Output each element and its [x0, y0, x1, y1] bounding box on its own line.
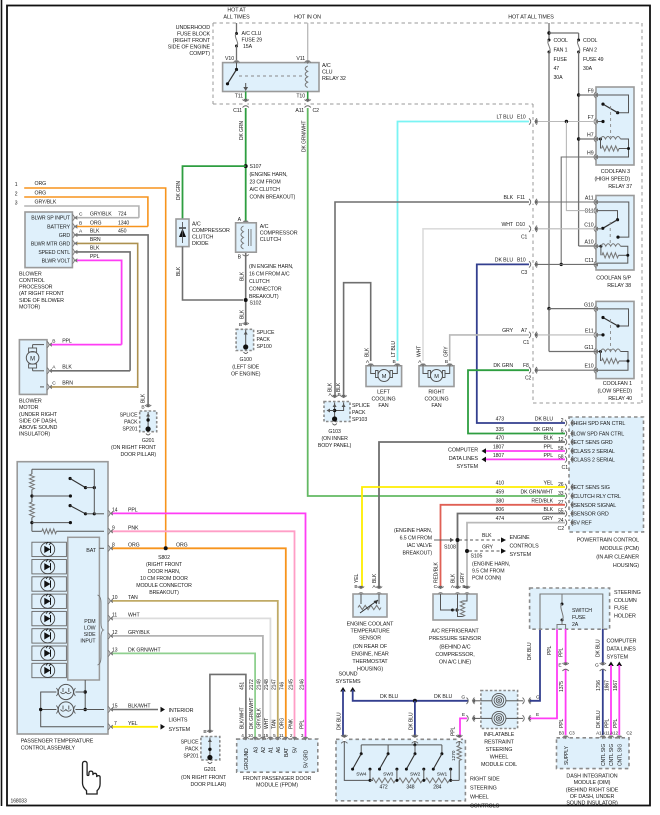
svg-text:BLWR MTR GRD: BLWR MTR GRD — [31, 241, 71, 247]
ECT thermistor — [358, 594, 381, 613]
pin B10 border — [517, 257, 538, 276]
label RIGHT SIDE STEERING WHEEL CONTROLS — [470, 777, 500, 810]
label COMPUTER DATA LINES SYSTEM right — [607, 639, 637, 661]
fuse COOL FAN 1 FUSE 47 30A — [548, 38, 569, 81]
DIM pin A12 — [616, 736, 623, 766]
svg-text:CONTROL: CONTROL — [19, 278, 45, 284]
svg-text:ENGINE, NEAR: ENGINE, NEAR — [351, 652, 389, 658]
svg-text:DK BLU: DK BLU — [337, 712, 343, 730]
relay38 contact — [598, 202, 629, 239]
wire D10 to C10 — [537, 228, 596, 230]
svg-text:DK BLU: DK BLU — [380, 694, 399, 700]
svg-text:BAT: BAT — [284, 748, 290, 757]
svg-text:(ON RIGHT FRONT: (ON RIGHT FRONT — [181, 775, 227, 781]
svg-text:DOOR PILLAR): DOOR PILLAR) — [190, 782, 226, 788]
label POWERTRAIN CONTROL MODULE — [577, 538, 640, 570]
pressure sensor pin B — [460, 572, 470, 595]
svg-text:INFLATABLE: INFLATABLE — [484, 732, 515, 738]
svg-text:S802: S802 — [158, 555, 170, 561]
relay38 coil and resistor — [598, 244, 629, 263]
LED indicator 2 — [32, 559, 67, 574]
svg-text:ENGINE: ENGINE — [510, 535, 531, 541]
svg-text:GRD: GRD — [59, 233, 71, 239]
stub wire 3 GRY/BLK — [15, 200, 139, 218]
wire hot-at-all-times to fuse 29 — [236, 23, 238, 33]
svg-text:B10: B10 — [517, 257, 526, 263]
relay32 armature arrow to T11 — [243, 83, 248, 91]
wire DK BLU B10 to PCM 2 — [477, 257, 565, 423]
pressure sensor potentiometer — [441, 594, 468, 617]
svg-text:H7: H7 — [587, 133, 594, 139]
svg-text:(ENGINE HARN,: (ENGINE HARN, — [394, 528, 432, 534]
svg-text:HOT IN ON: HOT IN ON — [294, 15, 321, 21]
svg-text:PPL: PPL — [559, 719, 565, 728]
svg-text:M: M — [434, 374, 439, 380]
relay37 pin F7 — [588, 115, 598, 125]
svg-text:A1: A1 — [596, 731, 602, 736]
coil spiral E — [481, 711, 518, 725]
relay37 pin F9 — [588, 89, 598, 99]
PCM pin 58 CLASS 2 SERIAL — [493, 453, 615, 463]
A/C REFRIGERANT PRESSURE SENSOR box — [433, 594, 477, 620]
svg-text:E10: E10 — [585, 364, 594, 370]
right fan pin A — [417, 346, 427, 367]
svg-text:DK GRN/WHT: DK GRN/WHT — [302, 121, 308, 152]
svg-text:BLK: BLK — [336, 382, 342, 392]
svg-text:CNTL SIG: CNTL SIG — [609, 744, 615, 766]
svg-text:459: 459 — [496, 490, 505, 496]
svg-text:BLOWER: BLOWER — [19, 399, 42, 405]
wire BLK clutch B to SP100 — [239, 253, 245, 325]
splice S105 — [465, 549, 482, 560]
svg-text:9.5 CM FROM: 9.5 CM FROM — [472, 569, 504, 575]
svg-text:F8: F8 — [523, 363, 529, 369]
svg-text:450: 450 — [118, 229, 127, 235]
svg-text:SYSTEM: SYSTEM — [510, 552, 532, 558]
relay40 pin E11 — [585, 328, 598, 338]
wire DK GRN F8 to PCM 6 — [468, 363, 565, 433]
BLOWER CONTROL PROCESSOR box — [25, 212, 72, 268]
svg-text:B11: B11 — [585, 209, 594, 215]
svg-text:1807: 1807 — [493, 453, 504, 459]
svg-text:ORG: ORG — [176, 542, 188, 548]
svg-text:WHEEL: WHEEL — [490, 755, 509, 761]
svg-text:S102: S102 — [250, 301, 262, 307]
svg-text:FRONT PASSENGER DOOR: FRONT PASSENGER DOOR — [243, 776, 312, 782]
svg-text:16 CM FROM A/C: 16 CM FROM A/C — [249, 272, 290, 278]
svg-text:470: 470 — [496, 436, 505, 442]
splice S107 — [244, 164, 296, 201]
label ENGINE CONTROLS SYSTEM — [510, 535, 540, 558]
relay40 pin G10 — [584, 302, 598, 312]
PCM pin 6 LOW SPD FAN CTRL — [496, 427, 625, 437]
svg-text:BODY PANEL): BODY PANEL) — [318, 443, 352, 449]
svg-text:DATA LINES: DATA LINES — [607, 647, 637, 653]
wire BLK diode to S102 — [176, 247, 243, 300]
PCM pin 27 SENSOR SIGNAL — [496, 498, 617, 508]
svg-text:B: B — [79, 220, 82, 226]
LED indicator 4 — [32, 594, 67, 609]
svg-text:V10: V10 — [225, 56, 234, 62]
relay38 pin B11 — [585, 207, 598, 214]
PCM pin 2 HIGH SPD FAN CTRL — [496, 417, 626, 427]
svg-text:M: M — [30, 356, 35, 362]
svg-text:BAT: BAT — [86, 548, 97, 554]
ECT sensor pin B — [354, 574, 364, 595]
svg-text:DK GRN: DK GRN — [493, 363, 513, 369]
relay32 dashed link — [239, 75, 303, 77]
svg-text:746: 746 — [280, 682, 286, 690]
relay COOLFAN S/P RELAY 38 box — [596, 196, 634, 271]
svg-text:DOOR HARN,: DOOR HARN, — [148, 569, 180, 575]
svg-text:M: M — [382, 374, 387, 380]
svg-text:2145: 2145 — [288, 679, 294, 690]
label ENGINE COOLANT TEMPERATURE SENSOR — [347, 622, 395, 673]
svg-text:HOUSING): HOUSING) — [613, 563, 639, 569]
label RIGHT COOLING FAN — [424, 390, 448, 410]
svg-text:SP103: SP103 — [352, 417, 367, 423]
svg-text:PACK: PACK — [257, 337, 271, 343]
pin F11 border — [517, 195, 538, 205]
SPLICE PACK SP201-1 box — [140, 411, 157, 432]
svg-text:SIDE OF BLOWER: SIDE OF BLOWER — [19, 298, 64, 304]
wire PPL 1807 class2 serial B — [482, 457, 566, 463]
wire DK GRN T11 to S107 to clutch A — [239, 108, 246, 222]
label A/C REFRIGERANT PRESSURE SENSOR — [429, 629, 481, 666]
label DASH INTEGRATION MODULE — [566, 774, 619, 807]
svg-text:MODULE (DIM): MODULE (DIM) — [574, 780, 611, 786]
label INFLATABLE RESTRAINT STEERING WHEEL MODULE COIL — [481, 732, 517, 768]
svg-text:C10: C10 — [584, 222, 593, 228]
svg-text:CONN BREAKOUT): CONN BREAKOUT) — [250, 195, 296, 201]
svg-text:PACK: PACK — [185, 747, 199, 753]
wire hot feed coolfan fuses — [547, 23, 578, 40]
DIM pin A11 — [608, 736, 615, 766]
svg-text:CLUTCH RLY CTRL: CLUTCH RLY CTRL — [574, 494, 621, 500]
relay37 pin H7 — [587, 133, 598, 143]
svg-text:A11: A11 — [295, 108, 304, 114]
LED indicator 5 — [32, 611, 67, 626]
svg-text:2149: 2149 — [257, 679, 263, 690]
lamp wiring — [39, 680, 104, 727]
svg-text:A1: A1 — [269, 747, 275, 753]
label COOLFAN S/P RELAY 38 — [596, 276, 631, 290]
label INTERIOR LIGHTS SYSTEM — [169, 708, 194, 733]
svg-text:G201: G201 — [142, 438, 155, 444]
PCM pin 55 SENSOR GRD — [496, 507, 609, 517]
svg-text:CONTROLS: CONTROLS — [470, 804, 500, 810]
svg-text:47: 47 — [554, 66, 560, 72]
svg-text:IAC VALVE: IAC VALVE — [407, 543, 433, 549]
svg-text:BLK: BLK — [543, 507, 553, 513]
label A/C COMPRESSOR CLUTCH — [260, 224, 298, 243]
pressure sensor pin A — [450, 573, 460, 594]
relay37 pin H9 — [587, 151, 598, 161]
svg-text:COMPRESSOR: COMPRESSOR — [192, 228, 230, 234]
svg-text:HOT AT ALL TIMES: HOT AT ALL TIMES — [508, 15, 554, 21]
wire PPL 1807 class2 serial A — [482, 448, 566, 454]
svg-text:CONNECTOR: CONNECTOR — [249, 287, 282, 293]
svg-text:HOLDER: HOLDER — [614, 613, 636, 619]
BLOWER MOTOR box — [19, 340, 47, 395]
RIGHT SIDE STEERING WHEEL CONTROLS box — [336, 739, 465, 801]
LED indicator 7 — [32, 646, 67, 661]
svg-text:A11: A11 — [602, 731, 610, 736]
svg-text:FUSE 29: FUSE 29 — [242, 38, 263, 44]
STEERING COLUMN FUSE HOLDER box — [530, 588, 610, 629]
svg-text:A/C REFRIGERANT: A/C REFRIGERANT — [431, 629, 479, 635]
svg-text:TEMPERATURE: TEMPERATURE — [350, 629, 390, 635]
svg-text:23 CM FROM: 23 CM FROM — [250, 180, 281, 186]
svg-text:30A: 30A — [554, 75, 564, 81]
svg-text:BLK: BLK — [372, 573, 378, 583]
PDM inner box — [68, 537, 100, 680]
svg-text:A/C: A/C — [322, 63, 331, 69]
svg-text:PNK: PNK — [288, 718, 294, 729]
wire PPL 1867 to DIM A12 — [610, 662, 622, 736]
switch SW3 — [378, 745, 398, 782]
svg-text:6: 6 — [561, 429, 564, 435]
svg-text:A2: A2 — [261, 747, 267, 753]
svg-text:DK BLU: DK BLU — [535, 417, 554, 423]
svg-text:GRY: GRY — [443, 346, 449, 357]
FPDM pin 9 A2 — [257, 679, 267, 753]
svg-text:MOTOR: MOTOR — [19, 405, 39, 411]
svg-text:HOUSING): HOUSING) — [357, 667, 383, 673]
svg-text:C2: C2 — [525, 376, 532, 382]
ground G201-1 — [111, 434, 157, 459]
ECT sensor pin A — [372, 573, 382, 594]
svg-text:YEL: YEL — [354, 574, 360, 583]
svg-text:RIGHT: RIGHT — [428, 390, 445, 396]
svg-text:SYSTEM: SYSTEM — [169, 727, 191, 733]
svg-text:B: B — [462, 584, 465, 590]
DIM C2 label — [626, 731, 632, 736]
svg-text:(IN AIR CLEANER: (IN AIR CLEANER — [596, 555, 639, 561]
svg-text:C: C — [52, 381, 56, 387]
svg-text:11: 11 — [279, 733, 284, 738]
wire A7 to E11 — [537, 334, 596, 336]
relay32 switch — [226, 63, 238, 86]
DIM pin A1 — [600, 736, 607, 766]
labels inside blower processor — [31, 216, 71, 265]
svg-text:SIDE OF DASH,: SIDE OF DASH, — [19, 418, 58, 424]
svg-text:LOW SPD FAN CTRL: LOW SPD FAN CTRL — [574, 432, 625, 438]
LED indicator 6 — [32, 629, 67, 644]
svg-text:DIODE: DIODE — [192, 241, 209, 247]
splice S108 — [444, 538, 460, 551]
svg-text:DATA LINES: DATA LINES — [449, 456, 479, 462]
svg-text:ORG: ORG — [35, 181, 47, 187]
right fan pin B — [443, 346, 453, 368]
svg-text:BLK: BLK — [176, 266, 182, 276]
PCM C1 label — [562, 465, 569, 471]
svg-text:10: 10 — [248, 733, 253, 738]
svg-text:MODULE COIL: MODULE COIL — [481, 762, 517, 768]
svg-text:COMPRESSOR: COMPRESSOR — [260, 231, 298, 237]
svg-text:THERMOSTAT: THERMOSTAT — [352, 659, 388, 665]
svg-text:H9: H9 — [587, 151, 594, 157]
svg-text:PPL: PPL — [559, 648, 565, 657]
svg-text:F11: F11 — [517, 195, 525, 201]
label SOUND SYSTEMS — [336, 672, 362, 686]
svg-text:PPL: PPL — [90, 254, 100, 260]
temp control pin 12 GRY/BLK — [108, 630, 263, 737]
svg-text:(LOW SPEED): (LOW SPEED) — [598, 389, 633, 395]
svg-text:DK BLU: DK BLU — [527, 642, 533, 660]
svg-text:DK GRN: DK GRN — [239, 121, 245, 140]
page left edge line — [1, 0, 3, 806]
FRONT PASSENGER DOOR MODULE box — [237, 739, 318, 772]
PCM pin 12 ECT SENS GRD — [496, 436, 613, 446]
wire hot-in-on to relay V11 — [307, 23, 309, 60]
svg-text:LOW: LOW — [84, 626, 96, 632]
label HOT AT ALL TIMES left — [223, 8, 250, 21]
controls left rail — [344, 741, 370, 780]
pin V11 — [296, 56, 310, 64]
svg-text:COOLING: COOLING — [371, 396, 395, 402]
svg-text:6.5 CM FROM: 6.5 CM FROM — [400, 536, 432, 542]
PCM pin 58 CLASS 2 SERIAL — [493, 445, 615, 455]
wire DK BLU 1796 to DIM A1 — [595, 629, 606, 736]
svg-text:SWITCH: SWITCH — [572, 608, 592, 614]
wire BLK 470 PCM12 to ECT A — [379, 442, 565, 588]
svg-text:GRY: GRY — [502, 328, 514, 334]
svg-text:451: 451 — [240, 682, 246, 690]
wire DK BLU sound sys left — [337, 687, 346, 736]
blower motor symbol — [26, 345, 44, 387]
svg-text:15A: 15A — [243, 44, 253, 50]
svg-text:CONTROL ASSEMBLY: CONTROL ASSEMBLY — [21, 746, 76, 752]
svg-text:2148: 2148 — [264, 679, 270, 690]
right fan motor symbol — [423, 366, 450, 382]
svg-text:5V: 5V — [293, 746, 299, 753]
svg-text:(IN ENGINE HARN,: (IN ENGINE HARN, — [249, 264, 293, 270]
wire LT BLU E10 to left fan B — [398, 115, 530, 362]
svg-text:D10: D10 — [516, 222, 525, 228]
svg-text:GROUND: GROUND — [244, 748, 250, 770]
temp control pin 9 PNK — [108, 525, 295, 737]
wire DK GRN/WHT T10 to PCM 33 — [302, 108, 566, 496]
FPDM pin 4 GROUND — [241, 733, 250, 770]
svg-text:COOLFAN S/P: COOLFAN S/P — [596, 276, 631, 282]
label BLOWER CONTROL PROCESSOR — [19, 271, 65, 310]
svg-text:BLK: BLK — [90, 229, 100, 235]
coil pin E left — [450, 712, 481, 739]
svg-text:HIGH SPD FAN CTRL: HIGH SPD FAN CTRL — [574, 421, 626, 427]
svg-text:3: 3 — [15, 201, 18, 207]
svg-text:BLK: BLK — [141, 393, 147, 403]
svg-text:S105: S105 — [471, 554, 483, 560]
left fan pin A — [364, 347, 374, 367]
svg-text:DK BLU: DK BLU — [596, 639, 602, 657]
relay38 dashed link — [609, 222, 611, 245]
SP201-2 connector — [203, 729, 213, 739]
SP201-1 connector B — [141, 393, 152, 413]
relay40 pin E10 — [585, 364, 598, 374]
svg-text:C1: C1 — [523, 340, 530, 346]
relay40 pin G11 — [584, 345, 598, 355]
svg-text:GRY: GRY — [542, 516, 554, 522]
stub wire 2 ORG — [15, 191, 148, 227]
svg-text:LEFT: LEFT — [377, 390, 391, 396]
svg-text:RELAY 37: RELAY 37 — [608, 184, 632, 190]
pin SPEED CNTL BLK — [72, 246, 130, 371]
svg-text:RED/BLK: RED/BLK — [531, 498, 553, 504]
svg-text:PPL: PPL — [547, 646, 553, 655]
relay38 pin A10 — [585, 240, 598, 250]
fuse holder internal bus — [540, 594, 603, 629]
dashed arrow BLK engine controls — [459, 533, 506, 543]
pin B ORG 1340 — [72, 220, 147, 229]
svg-text:B3: B3 — [559, 731, 565, 736]
svg-text:335: 335 — [496, 427, 505, 433]
ground G201-2 — [181, 762, 227, 788]
svg-text:A11: A11 — [585, 196, 594, 202]
svg-text:BLK: BLK — [239, 309, 245, 319]
svg-text:MODULE (FPDM): MODULE (FPDM) — [256, 783, 298, 789]
label engine harn 9.5cm — [472, 562, 510, 582]
svg-text:2A: 2A — [572, 622, 579, 628]
svg-text:ALL TIMES: ALL TIMES — [223, 15, 250, 21]
stub wire 1 ORG — [15, 181, 166, 548]
svg-text:S108: S108 — [444, 545, 456, 551]
svg-text:SPEED CNTL: SPEED CNTL — [38, 250, 70, 256]
svg-text:B: B — [141, 405, 144, 411]
svg-text:RELAY 38: RELAY 38 — [607, 283, 631, 289]
svg-text:C11: C11 — [233, 108, 242, 114]
svg-text:1340: 1340 — [118, 220, 129, 226]
svg-text:PPL: PPL — [543, 445, 553, 451]
svg-text:SIDE OF ENGINE: SIDE OF ENGINE — [168, 45, 211, 51]
svg-text:PPL: PPL — [605, 719, 611, 728]
label engine harn 16cm — [249, 264, 293, 300]
svg-text:PCM CONN): PCM CONN) — [472, 576, 502, 582]
svg-text:STEERING: STEERING — [470, 786, 497, 792]
resistor 348 — [398, 778, 422, 791]
svg-text:B: B — [392, 359, 395, 365]
svg-text:F9: F9 — [588, 89, 594, 95]
svg-text:SP100: SP100 — [257, 344, 272, 350]
controls connector PPL right — [456, 735, 462, 744]
pin BLWR VOLT PPL — [72, 254, 121, 344]
blower motor pin A — [47, 365, 130, 374]
svg-text:BREAKOUT): BREAKOUT) — [149, 590, 179, 596]
coil pin G left — [461, 694, 481, 704]
svg-text:C2: C2 — [558, 526, 565, 532]
svg-text:15: 15 — [263, 733, 268, 738]
pin BLWR MTR GRD BRN — [72, 237, 137, 388]
relay40 dashed link — [610, 319, 612, 350]
wire E10 to F7 and B11 — [537, 120, 596, 211]
relay38 pin A11 — [585, 196, 598, 206]
svg-text:CLASS 2 SERIAL: CLASS 2 SERIAL — [574, 457, 615, 463]
label LEFT COOLING FAN — [371, 390, 395, 410]
svg-text:(BEHIND RIGHT SIDE: (BEHIND RIGHT SIDE — [566, 788, 619, 794]
svg-text:BLWR SP INPUT: BLWR SP INPUT — [31, 216, 71, 222]
svg-text:T11: T11 — [235, 94, 243, 100]
svg-text:410: 410 — [496, 481, 505, 487]
svg-text:PACK: PACK — [124, 420, 138, 426]
svg-text:PPL: PPL — [543, 453, 553, 459]
svg-text:2: 2 — [15, 192, 18, 198]
svg-text:COMPUTER: COMPUTER — [607, 639, 637, 645]
svg-text:2147: 2147 — [272, 679, 278, 690]
svg-text:YEL: YEL — [543, 481, 553, 487]
svg-text:SW4: SW4 — [356, 771, 367, 777]
pin A BLK 450 — [72, 229, 148, 406]
svg-text:SPLICE: SPLICE — [257, 330, 276, 336]
